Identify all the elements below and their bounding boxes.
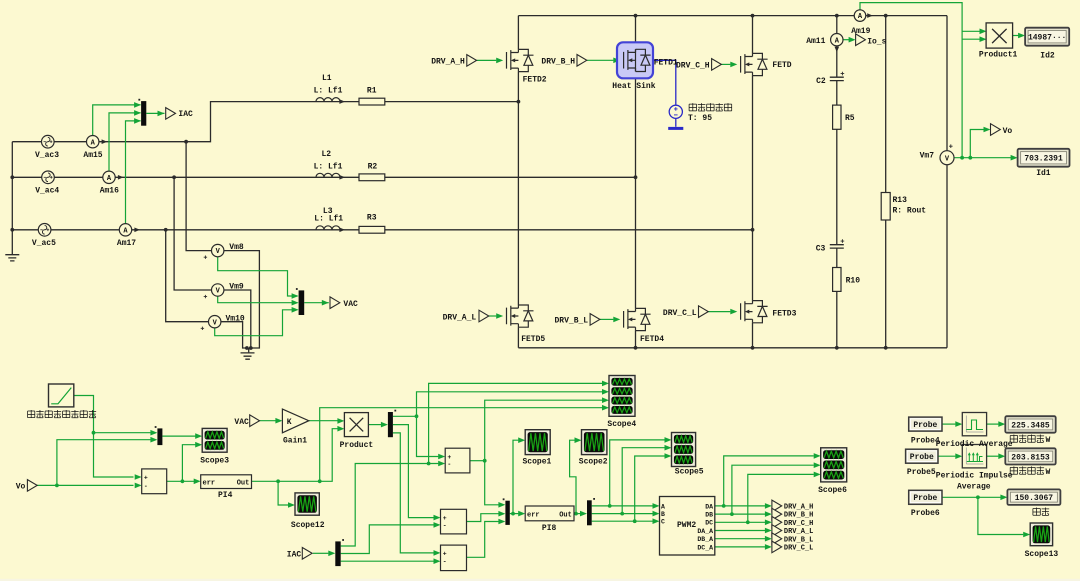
- svg-text:err: err: [527, 512, 540, 520]
- svg-text:Heat Sink: Heat Sink: [612, 82, 655, 91]
- svg-text:Vm9: Vm9: [229, 282, 244, 291]
- svg-text:DC: DC: [705, 520, 713, 527]
- svg-text:W: W: [1046, 468, 1051, 477]
- svg-text:R10: R10: [846, 277, 861, 286]
- svg-text:R13: R13: [893, 196, 908, 205]
- svg-text:A: A: [661, 503, 665, 510]
- svg-text:DRV_C_L: DRV_C_L: [663, 309, 697, 318]
- svg-text:Scope2: Scope2: [579, 457, 608, 466]
- svg-text:PWM2: PWM2: [677, 521, 696, 530]
- svg-text:IAC: IAC: [287, 550, 302, 559]
- svg-text:V_ac5: V_ac5: [32, 239, 56, 248]
- svg-text:+: +: [144, 474, 148, 481]
- svg-text:C2: C2: [816, 77, 826, 86]
- svg-text:Gain1: Gain1: [283, 437, 307, 446]
- svg-text:FETD1: FETD1: [654, 59, 678, 68]
- svg-text:DRV_B_H: DRV_B_H: [784, 512, 813, 520]
- svg-text:DRV_C_H: DRV_C_H: [676, 62, 710, 71]
- svg-text:Scope12: Scope12: [291, 521, 325, 530]
- svg-text:C: C: [661, 519, 665, 526]
- svg-text:DRV_A_L: DRV_A_L: [443, 313, 477, 322]
- svg-text:R3: R3: [367, 213, 377, 222]
- svg-text:Vo: Vo: [1003, 127, 1013, 136]
- svg-text:W: W: [1046, 436, 1051, 445]
- svg-text:Out: Out: [559, 512, 572, 520]
- svg-text:Scope13: Scope13: [1025, 550, 1059, 559]
- svg-text:Product1: Product1: [979, 50, 1018, 59]
- svg-text:150.3067: 150.3067: [1015, 494, 1054, 503]
- svg-text:DB_A: DB_A: [697, 536, 713, 543]
- svg-text:VAC: VAC: [234, 418, 249, 427]
- svg-text:DRV_A_H: DRV_A_H: [431, 58, 465, 67]
- svg-text:Probe: Probe: [910, 453, 934, 462]
- svg-text:FETD: FETD: [772, 61, 791, 70]
- svg-text:IAC: IAC: [178, 110, 193, 119]
- svg-text:Average: Average: [957, 483, 991, 492]
- svg-text:FETD5: FETD5: [521, 335, 545, 344]
- svg-text:err: err: [203, 479, 216, 487]
- svg-text:Id2: Id2: [1040, 52, 1055, 61]
- svg-text:Am15: Am15: [83, 151, 102, 160]
- svg-text:DC_A: DC_A: [697, 544, 713, 551]
- svg-text:Scope1: Scope1: [523, 457, 552, 466]
- svg-text:Periodic Average: Periodic Average: [936, 440, 1013, 449]
- svg-text:+: +: [443, 515, 447, 522]
- svg-text:DRV_B_L: DRV_B_L: [555, 317, 589, 326]
- svg-text:V_ac4: V_ac4: [35, 187, 59, 196]
- svg-text:DB: DB: [705, 512, 713, 519]
- svg-text:Scope5: Scope5: [675, 467, 704, 476]
- svg-text:Am16: Am16: [100, 187, 119, 196]
- svg-text:-: -: [447, 461, 451, 468]
- svg-text:FETD4: FETD4: [640, 335, 664, 344]
- svg-text:R: Rout: R: Rout: [893, 206, 927, 215]
- svg-text:DRV_A_H: DRV_A_H: [784, 504, 813, 512]
- svg-text:V_ac3: V_ac3: [35, 151, 59, 160]
- svg-text:DRV_B_L: DRV_B_L: [784, 536, 813, 544]
- svg-text:Out: Out: [237, 479, 250, 487]
- svg-text:DA: DA: [705, 503, 713, 510]
- svg-text:14987···: 14987···: [1028, 34, 1066, 43]
- svg-text:R1: R1: [367, 87, 377, 96]
- svg-text:DA_A: DA_A: [697, 528, 713, 535]
- svg-text:T: 95: T: 95: [688, 114, 712, 123]
- svg-text:Am19: Am19: [851, 27, 870, 36]
- svg-text:K: K: [287, 418, 292, 427]
- svg-text:Vm8: Vm8: [229, 243, 244, 252]
- svg-text:Probe: Probe: [913, 421, 937, 430]
- svg-text:L: Lf1: L: Lf1: [314, 162, 343, 171]
- svg-text:B: B: [661, 511, 665, 518]
- svg-text:L2: L2: [322, 150, 332, 159]
- svg-text:Io_s: Io_s: [867, 37, 886, 46]
- svg-text:Vo: Vo: [16, 483, 26, 492]
- svg-text:PI4: PI4: [218, 491, 233, 500]
- svg-text:Probe5: Probe5: [907, 468, 936, 477]
- svg-text:R5: R5: [845, 114, 855, 123]
- svg-text:FETD3: FETD3: [772, 310, 796, 319]
- svg-text:PI8: PI8: [542, 524, 557, 533]
- svg-text:L: Lf1: L: Lf1: [314, 215, 343, 224]
- svg-text:Am11: Am11: [806, 37, 825, 46]
- svg-text:DRV_B_H: DRV_B_H: [541, 58, 575, 67]
- svg-text:Periodic Impulse: Periodic Impulse: [936, 472, 1013, 481]
- svg-text:-: -: [443, 522, 447, 529]
- svg-text:C3: C3: [816, 245, 826, 254]
- svg-text:-: -: [144, 483, 148, 490]
- svg-text:R2: R2: [368, 162, 378, 171]
- svg-text:Scope3: Scope3: [200, 456, 229, 465]
- svg-text:+: +: [443, 550, 447, 557]
- svg-text:Scope4: Scope4: [607, 420, 636, 429]
- svg-text:Vm7: Vm7: [920, 151, 935, 160]
- svg-text:+: +: [447, 454, 451, 461]
- svg-text:Id1: Id1: [1036, 169, 1051, 178]
- svg-text:DRV_C_H: DRV_C_H: [784, 520, 813, 528]
- svg-text:Scope6: Scope6: [818, 486, 847, 495]
- svg-text:Vm10: Vm10: [226, 314, 245, 323]
- svg-text:703.2391: 703.2391: [1024, 155, 1063, 164]
- svg-text:DRV_A_L: DRV_A_L: [784, 528, 813, 536]
- svg-text:L1: L1: [322, 74, 332, 83]
- svg-text:Product: Product: [340, 441, 374, 450]
- svg-text:Probe6: Probe6: [911, 509, 940, 518]
- svg-text:Probe: Probe: [913, 494, 937, 503]
- svg-text:-: -: [443, 559, 447, 566]
- svg-text:225.3485: 225.3485: [1011, 421, 1050, 430]
- svg-text:L: Lf1: L: Lf1: [314, 87, 343, 96]
- svg-text:VAC: VAC: [343, 300, 358, 309]
- svg-text:FETD2: FETD2: [523, 75, 547, 84]
- svg-text:203.8153: 203.8153: [1011, 453, 1050, 462]
- svg-text:Am17: Am17: [117, 239, 136, 248]
- svg-text:DRV_C_L: DRV_C_L: [784, 545, 813, 553]
